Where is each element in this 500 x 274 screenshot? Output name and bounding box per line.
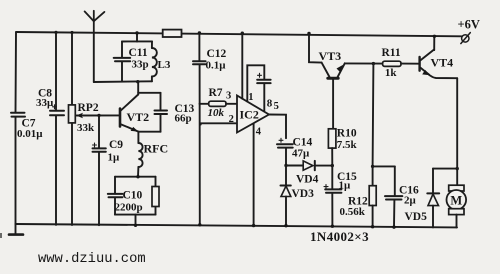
svg-text:1μ: 1μ: [339, 180, 352, 192]
node R12 tap on VT3 emitter wire: [372, 62, 375, 65]
capacitor C11: [121, 42, 123, 82]
svg-text:M: M: [450, 193, 462, 207]
svg-text:+6V: +6V: [458, 18, 480, 32]
wire C9 branch: [97, 114, 100, 225]
transistor VT2: [120, 95, 138, 132]
wire top supply rail: [16, 32, 462, 36]
svg-text:33μ: 33μ: [36, 97, 54, 109]
capacitor C10: [108, 194, 123, 197]
capacitor pin1-pin8 loop: [247, 65, 264, 110]
resistor R7: [200, 101, 238, 106]
node VD4/VD3 junction: [284, 164, 287, 167]
wire collector to C13 top: [138, 92, 160, 94]
capacitor C14: [279, 138, 283, 142]
svg-text:R11: R11: [382, 47, 401, 59]
watermark: [38, 251, 146, 267]
diode VD5: [427, 169, 439, 228]
transistor VT3: [307, 32, 382, 129]
svg-text:0.56k: 0.56k: [340, 206, 366, 218]
wire C8 branch: [54, 31, 57, 225]
wire RP2 wiper to VT2 base: [76, 113, 119, 118]
wire VT2 collector to tank: [137, 82, 139, 95]
svg-text:RFC: RFC: [144, 142, 169, 156]
svg-text:0.01μ: 0.01μ: [17, 128, 43, 140]
svg-text:VT2: VT2: [127, 110, 150, 124]
wire IC2 output: [269, 115, 286, 139]
inductor L3: [152, 41, 157, 81]
svg-text:www.dziuu.com: www.dziuu.com: [38, 251, 146, 267]
svg-text:1k: 1k: [385, 67, 398, 79]
terminal +6V: [461, 33, 471, 44]
svg-text:R7: R7: [209, 87, 223, 99]
resistor on top rail: [163, 30, 182, 37]
motor M: [447, 185, 467, 227]
label 1N4002x3: [310, 229, 369, 244]
antenna: [85, 11, 105, 33]
capacitor C16: [392, 166, 395, 228]
svg-text:5: 5: [274, 101, 279, 112]
capacitor C15: [331, 166, 334, 228]
svg-text:0.1μ: 0.1μ: [206, 59, 227, 71]
capacitor C7: [11, 113, 25, 117]
svg-text:1μ: 1μ: [108, 151, 121, 163]
potentiometer RP2: [69, 105, 76, 123]
wire R12 column: [371, 64, 395, 168]
wire C10 loop: [115, 175, 156, 227]
svg-text:VT4: VT4: [431, 55, 454, 69]
wire tank top and stub to rail: [122, 31, 152, 41]
svg-text:VD5: VD5: [405, 211, 428, 223]
svg-text:2μ: 2μ: [404, 194, 417, 206]
svg-text:C11: C11: [129, 47, 148, 59]
svg-text:1: 1: [248, 92, 253, 103]
capacitor C13: [160, 93, 162, 132]
svg-text:7.5k: 7.5k: [337, 139, 358, 151]
wire antenna down to tank bottom: [93, 33, 95, 82]
svg-text:33k: 33k: [77, 122, 95, 134]
resistor (C10 damping): [152, 187, 159, 207]
wire left rail (C7 branch): [15, 32, 18, 224]
capacitor C9: [93, 148, 106, 151]
capacitor C12: [193, 61, 206, 64]
diode VD3: [281, 166, 291, 228]
svg-text:66p: 66p: [175, 112, 192, 124]
svg-text:C9: C9: [109, 139, 123, 151]
svg-text:RP2: RP2: [78, 102, 99, 114]
resistor R11: [383, 61, 419, 66]
svg-text:3: 3: [226, 90, 231, 101]
capacitor C8: [50, 111, 64, 116]
resistor R12: [369, 166, 376, 228]
svg-text:33p: 33p: [132, 58, 149, 70]
svg-text:1N4002×3: 1N4002×3: [310, 229, 369, 244]
wire IC2 pin2 to ground: [201, 123, 237, 124]
wire tank bottom horizontal: [94, 80, 152, 83]
wire C12 branch: [198, 31, 202, 226]
wire bottom ground rail: [16, 224, 458, 227]
transistor VT4: [420, 35, 458, 79]
svg-text:VD3: VD3: [292, 188, 315, 200]
svg-text:L3: L3: [158, 59, 171, 71]
svg-text:VT3: VT3: [319, 49, 342, 63]
svg-text:C12: C12: [207, 48, 227, 60]
svg-text:8: 8: [267, 97, 273, 109]
ground: [9, 224, 23, 235]
svg-text:47μ: 47μ: [292, 147, 310, 159]
svg-text:10k: 10k: [208, 107, 225, 119]
wire IC2 pin4 to ground: [252, 124, 255, 228]
wire VD5 to motor column: [433, 167, 459, 170]
svg-text:R10: R10: [337, 128, 357, 140]
resistor R10: [328, 129, 336, 168]
diode VD4: [286, 161, 332, 170]
svg-text:VD4: VD4: [296, 173, 319, 185]
wire RP2 branch: [70, 31, 73, 225]
wire emitter / C13 bottom: [138, 132, 160, 143]
svg-text:4: 4: [256, 126, 262, 137]
wire rail drop to IC2 top: [241, 32, 244, 99]
svg-text:C10: C10: [123, 190, 143, 202]
svg-text:IC2: IC2: [240, 107, 259, 121]
inductor RFC: [138, 143, 143, 177]
wire VT4 emitter down to motor: [456, 78, 458, 185]
svg-text:2200p: 2200p: [115, 202, 143, 214]
op-amp IC2: [237, 96, 269, 133]
